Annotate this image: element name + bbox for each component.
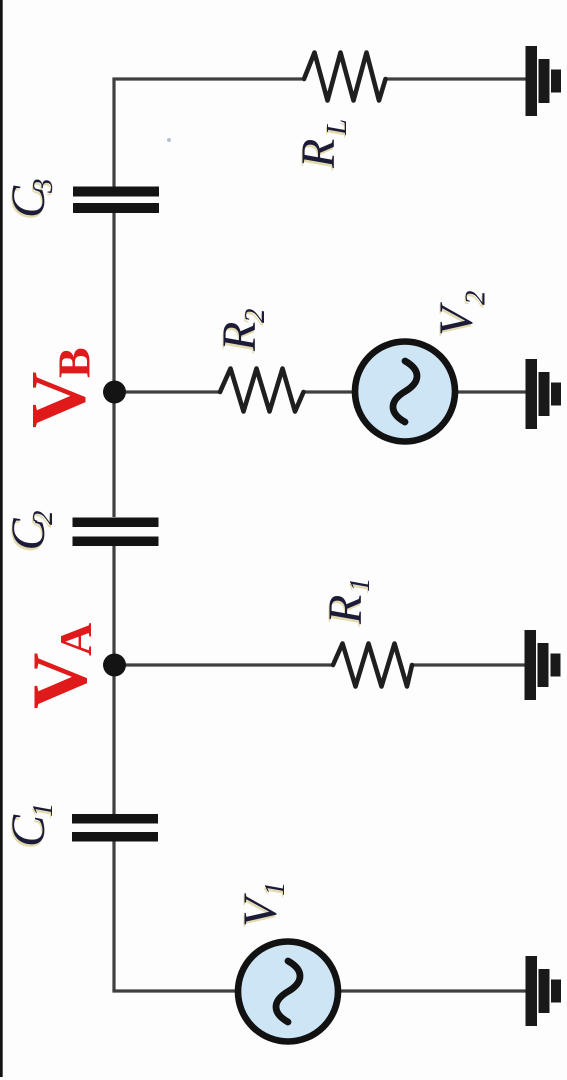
svg-text:3: 3 bbox=[27, 179, 59, 195]
svg-text:L: L bbox=[321, 119, 353, 136]
svg-text:1: 1 bbox=[259, 882, 291, 897]
svg-text:2: 2 bbox=[27, 511, 59, 526]
svg-text:R: R bbox=[213, 322, 266, 352]
svg-text:V: V bbox=[234, 893, 287, 927]
svg-text:B: B bbox=[49, 347, 100, 378]
svg-text:V: V bbox=[430, 302, 483, 336]
svg-text:A: A bbox=[50, 623, 101, 656]
svg-text:R: R bbox=[292, 139, 345, 169]
svg-text:1: 1 bbox=[344, 578, 376, 593]
svg-text:R: R bbox=[319, 595, 372, 625]
svg-text:V: V bbox=[16, 653, 103, 709]
svg-text:2: 2 bbox=[239, 309, 271, 324]
svg-text:V: V bbox=[15, 372, 102, 428]
svg-text:C: C bbox=[2, 814, 55, 847]
svg-text:2: 2 bbox=[460, 291, 492, 306]
svg-text:1: 1 bbox=[27, 803, 59, 818]
